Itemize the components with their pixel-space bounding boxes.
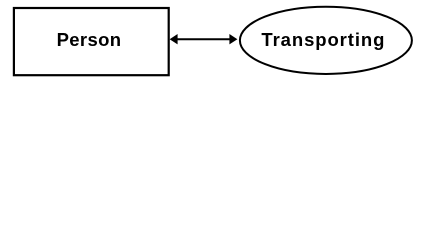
- left arrowhead: [170, 34, 178, 44]
- entity box Person: [14, 8, 169, 75]
- right arrowhead: [229, 34, 237, 44]
- wire double-arrow shaft: [174, 38, 233, 40]
- relationship ellipse Transporting: [240, 7, 412, 74]
- svg-text:Transporting: Transporting: [261, 29, 385, 50]
- svg-text:Person: Person: [57, 29, 122, 50]
